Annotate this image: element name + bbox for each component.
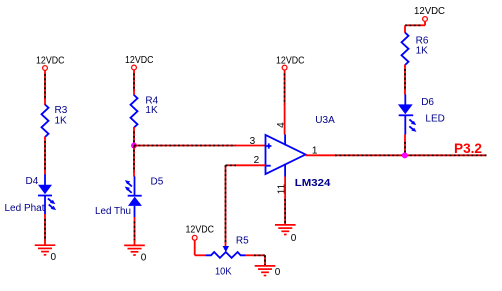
svg-text:1K: 1K [55,116,68,127]
wire 12VDC to R3 [44,71,46,105]
svg-text:10K: 10K [215,266,232,277]
svg-text:R3: R3 [55,105,68,116]
svg-text:P3.2: P3.2 [454,140,482,156]
ground 0 (column 1) [35,245,57,263]
svg-text:12VDC: 12VDC [276,55,305,66]
LED D4 [5,174,57,214]
ground 0 (op-amp pin 11) [275,225,297,244]
resistor R3 [42,105,68,138]
potentiometer R5 10K [206,236,249,278]
svg-text:Led Phat: Led Phat [5,203,45,214]
wire R6 to D6 [404,65,406,95]
power symbol 12VDC (R5) [186,225,215,241]
wire D4 to ground [44,214,46,245]
wire R3 to D4 [44,137,46,175]
power symbol 12VDC (column 4) [414,6,445,21]
svg-text:0: 0 [291,233,297,244]
svg-text:D6: D6 [421,97,434,108]
wire op-amp pin 11 to ground [284,177,286,225]
node junction R4/D5/pin3 [131,143,137,149]
ground 0 (column 2) [124,245,147,263]
power symbol 12VDC (column 2) [125,55,154,70]
svg-text:12VDC: 12VDC [186,225,215,236]
svg-text:4: 4 [276,122,287,128]
svg-text:D5: D5 [151,177,164,188]
power symbol 12VDC (op-amp) [276,55,305,70]
svg-text:LM324: LM324 [295,178,331,189]
svg-text:U3A: U3A [315,115,335,126]
svg-text:12VDC: 12VDC [36,56,65,67]
svg-text:LED: LED [425,113,444,124]
svg-text:1K: 1K [416,46,429,57]
op-amp U3A LM324 [250,115,335,194]
svg-text:1K: 1K [145,105,158,116]
node junction D6/output [402,152,408,158]
svg-text:0: 0 [51,252,57,263]
wire D5 to ground [134,217,136,245]
ground 0 (R5) [255,266,281,278]
wire op-amp pin 1 output to P3.2 [306,154,487,156]
wire 12VDC to op-amp pin 4 [284,70,286,134]
svg-text:Led Thu: Led Thu [95,206,131,217]
svg-text:2: 2 [254,155,260,166]
svg-text:0: 0 [275,267,281,278]
wire R4 to junction [133,127,135,146]
LED D5 [95,176,164,217]
wire junction to D5 [133,146,135,177]
LED D6 [398,94,445,134]
resistor R4 [131,95,159,128]
svg-text:3: 3 [250,136,256,147]
svg-text:D4: D4 [26,176,39,187]
svg-text:R5: R5 [236,236,249,247]
wire D6 to output node [404,134,406,155]
wire 12VDC to R6 [405,22,425,33]
wire 12VDC to R4 [133,70,135,95]
wire R5 right to ground [245,255,265,265]
resistor R6 [402,33,429,66]
wire junction to op-amp pin 3 [134,145,266,147]
svg-text:12VDC: 12VDC [125,55,154,66]
power symbol 12VDC (column 1) [36,56,65,71]
wire op-amp pin 2 to R5 wiper [226,165,266,247]
svg-text:0: 0 [141,252,147,263]
wire 12VDC to R5 left [195,240,206,255]
svg-text:12VDC: 12VDC [414,6,445,17]
